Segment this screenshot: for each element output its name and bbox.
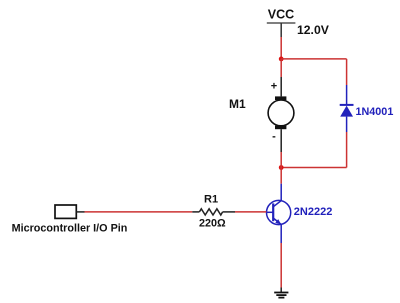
ground lead (black): [280, 288, 282, 293]
wire emitter lead (blue): [280, 224, 282, 243]
wire collector lead (blue): [280, 184, 282, 201]
microcontroller I/O pin connector: [55, 205, 85, 218]
wire node A to motor + lead (red): [280, 59, 282, 77]
motor M1: [268, 77, 294, 152]
resistor R1: [192, 209, 235, 215]
svg-text:1N4001: 1N4001: [356, 106, 394, 118]
wire diode branch lower segment (red, vertical): [346, 132, 348, 168]
wire diode cathode lead (blue): [346, 85, 348, 105]
svg-text:+: +: [271, 81, 277, 93]
svg-text:VCC: VCC: [268, 8, 294, 22]
svg-text:Microcontroller I/O Pin: Microcontroller I/O Pin: [12, 222, 128, 234]
svg-text:220Ω: 220Ω: [199, 217, 226, 229]
svg-text:M1: M1: [229, 97, 246, 111]
wire VCC to node A (red, vertical): [280, 37, 282, 59]
wire node B to collector (red): [280, 168, 282, 184]
svg-text:2N2222: 2N2222: [294, 206, 333, 218]
wire node A to diode branch (red, horizontal top): [281, 58, 346, 60]
svg-text:-: -: [272, 131, 276, 143]
wire motor - lead to node B (red): [280, 152, 282, 168]
node B junction dot: [279, 165, 284, 170]
wire I/O pin to resistor (red): [85, 211, 193, 213]
diode D1 1N4001: [340, 105, 354, 117]
wire emitter to ground (red): [280, 243, 282, 288]
transistor Q1 2N2222: [266, 200, 290, 224]
VCC power symbol: [267, 8, 296, 38]
wire diode anode lead (blue): [346, 117, 348, 132]
wire node B to diode branch (red, horizontal bottom): [281, 167, 346, 169]
svg-text:R1: R1: [204, 194, 218, 206]
wire resistor to base (red): [235, 211, 266, 213]
node A junction dot: [279, 57, 284, 62]
svg-text:12.0V: 12.0V: [297, 23, 330, 37]
wire diode branch upper segment (red, vertical): [346, 59, 348, 85]
ground symbol: [274, 293, 288, 298]
